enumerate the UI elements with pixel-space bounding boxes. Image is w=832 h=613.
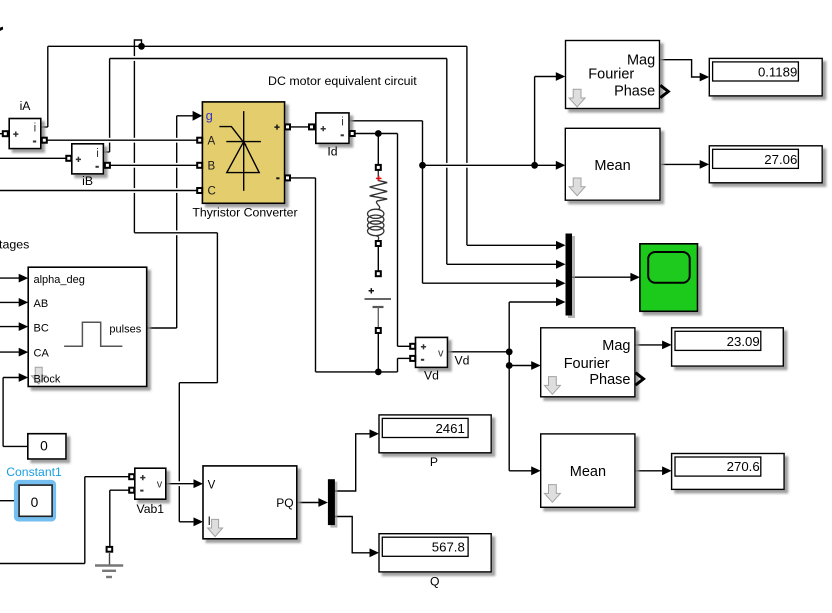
svg-text:27.06: 27.06 xyxy=(764,152,797,167)
svg-text:CA: CA xyxy=(34,348,50,360)
svg-text:Constant1: Constant1 xyxy=(6,465,62,479)
dc source battery xyxy=(369,288,374,293)
arrow into display 23.09 xyxy=(662,341,672,350)
current measurement iA xyxy=(9,119,41,149)
svg-text:Mag: Mag xyxy=(602,338,630,354)
resistor R xyxy=(370,170,388,201)
wire Block input from constant xyxy=(3,445,28,447)
svg-text:23.09: 23.09 xyxy=(727,334,760,349)
svg-text:Mean: Mean xyxy=(570,464,606,480)
wire Vd- in xyxy=(398,357,411,359)
wire Vd+ in xyxy=(398,345,411,347)
svg-text:i: i xyxy=(96,148,99,160)
node iA branch xyxy=(138,43,145,50)
pulse icon xyxy=(64,322,122,346)
svg-text:Phase: Phase xyxy=(589,372,630,388)
svg-text:pulses: pulses xyxy=(109,324,141,336)
wire thyristor- out xyxy=(290,177,315,179)
port square thyristor + xyxy=(285,124,290,129)
wire Id- out xyxy=(355,133,398,135)
display Q xyxy=(379,534,491,572)
mask arrow icon xyxy=(208,519,223,536)
svg-text:Fourier: Fourier xyxy=(564,356,610,372)
svg-text:PQ: PQ xyxy=(276,496,293,510)
wire Constant1 output left xyxy=(0,500,14,502)
wire Fourier2 Mag to display xyxy=(635,344,663,346)
wire iB i-output vertical up xyxy=(109,59,111,153)
svg-text:v: v xyxy=(438,348,444,360)
mux scope xyxy=(566,234,576,319)
wire iB i horizontal xyxy=(110,58,447,60)
wire demux to Q display xyxy=(335,517,370,553)
wire Id to junction and mux vertical xyxy=(422,121,424,283)
voltage measurement Vd xyxy=(416,337,448,367)
demux PQ xyxy=(328,479,338,527)
wire Vab1 - in xyxy=(110,489,129,491)
port square RLC mid2 xyxy=(376,271,381,276)
port square iB minus out xyxy=(105,163,110,168)
wire Block constant vertical xyxy=(2,378,4,447)
voltage measurement Vab1 xyxy=(135,468,166,499)
svg-text:iA: iA xyxy=(20,99,32,113)
svg-text:Vd: Vd xyxy=(424,369,439,383)
svg-text:Vab1: Vab1 xyxy=(137,502,165,516)
Mean block 2 xyxy=(541,434,635,507)
arrow into pulse gen CA xyxy=(19,348,29,357)
wire thyristor minus down vertical xyxy=(315,178,317,372)
port square RLC bottom xyxy=(376,328,381,333)
arrow into pulse gen alpha_deg xyxy=(19,274,29,283)
arrow into mux in3 xyxy=(556,279,566,288)
arrow into mux in1 xyxy=(556,241,566,250)
svg-text:C: C xyxy=(208,186,216,198)
wire Fourier1 feed vertical xyxy=(534,77,536,166)
wire mux input 1 xyxy=(467,244,557,246)
svg-text:0.1189: 0.1189 xyxy=(758,64,797,79)
svg-text:i: i xyxy=(341,117,344,129)
svg-text:g: g xyxy=(206,108,213,123)
corner mark xyxy=(0,27,3,31)
PQ power block xyxy=(203,466,297,539)
port square thyristor C xyxy=(197,188,202,193)
port square thyristor A xyxy=(197,138,202,143)
constant1 selected xyxy=(16,482,53,519)
current measurement Id xyxy=(316,113,349,143)
port square iA input xyxy=(3,131,8,136)
svg-text:0: 0 xyxy=(31,495,39,510)
mask arrow icon xyxy=(544,377,560,395)
svg-text:BC: BC xyxy=(34,323,49,335)
wire Vd out to node xyxy=(448,351,510,353)
port square ground xyxy=(107,547,113,552)
svg-text:P: P xyxy=(430,455,438,469)
arrow into Fourier1 xyxy=(556,72,566,81)
phase chevron out xyxy=(660,85,668,97)
arrow into scope xyxy=(630,273,640,282)
node bottom battery junction xyxy=(375,369,382,376)
node Fourier1 branch xyxy=(531,162,538,169)
wire g gate vertical (pulses to g) xyxy=(176,116,178,328)
wire RLC top connection xyxy=(377,134,379,165)
wire iA to mux vertical xyxy=(466,46,468,245)
node Id- branch xyxy=(375,130,382,137)
wire Id- down to Vd+ vertical xyxy=(397,134,399,347)
wire iA input stub xyxy=(0,133,9,135)
arrow into Mean1 xyxy=(556,161,566,170)
wire thyristor+ to Id xyxy=(290,126,309,128)
svg-text:Fourier: Fourier xyxy=(588,67,634,83)
display 270.6 xyxy=(672,454,785,490)
wire iB i elbow xyxy=(103,151,110,153)
wire iB- to thyristor B xyxy=(110,164,197,166)
wire junction row to Mean1 xyxy=(423,164,557,166)
svg-text:V: V xyxy=(208,479,216,491)
arrow into display Q xyxy=(370,548,380,557)
wire Vd node vertical (mux4 / Fourier2 / Mean2) xyxy=(508,302,510,471)
wire iA branch mid verticals xyxy=(216,233,218,383)
red plus polarity xyxy=(376,176,382,182)
svg-text:0: 0 xyxy=(40,439,48,454)
wire pulse generator inputs xyxy=(0,277,20,279)
arrow into display 0.1189 xyxy=(700,73,710,82)
port square Id - xyxy=(350,131,355,136)
wire Vab1 + in xyxy=(85,476,129,478)
wire Id i out xyxy=(349,120,423,122)
svg-text:Mean: Mean xyxy=(594,158,630,174)
wire Mean2 to display xyxy=(635,470,663,472)
port square iA minus out xyxy=(42,138,47,143)
wire iA i-output elbow xyxy=(41,126,48,128)
svg-text:i: i xyxy=(34,123,37,135)
ground symbol xyxy=(95,553,123,577)
thyristor symbol xyxy=(219,111,261,191)
mask arrow behind Block xyxy=(31,367,46,384)
port square Vd + xyxy=(410,344,415,349)
arrow into display 27.06 xyxy=(700,160,710,169)
wire top iA horizontal xyxy=(48,45,467,47)
svg-text:Block: Block xyxy=(34,373,61,385)
svg-text:A: A xyxy=(208,135,216,147)
arrow into demux xyxy=(318,498,328,507)
wire demux to P display xyxy=(335,434,370,491)
Mean block 1 xyxy=(565,128,660,200)
svg-text:alpha_deg: alpha_deg xyxy=(34,274,85,286)
arrow into Mean2 xyxy=(531,466,541,475)
arrow into PQ V xyxy=(194,479,204,488)
svg-text:Thyristor Converter: Thyristor Converter xyxy=(192,206,297,220)
arrow into display P xyxy=(370,429,380,438)
series RLC branch xyxy=(365,170,392,328)
mask arrow icon xyxy=(544,485,560,503)
arrow into g xyxy=(193,111,203,121)
wire Vd node up-branch handled, to Fourier2 xyxy=(508,352,510,366)
pulse generator block xyxy=(28,267,147,386)
node Vd out junction xyxy=(506,348,513,355)
wire Fourier1 Mag to display xyxy=(659,60,700,77)
svg-text:567.8: 567.8 xyxy=(432,540,465,555)
arrow into mux in2 xyxy=(556,260,566,269)
display 23.09 xyxy=(672,328,784,366)
svg-text:Q: Q xyxy=(430,575,439,589)
wire battery bottom to node xyxy=(377,333,379,372)
svg-text:B: B xyxy=(208,160,216,172)
wire iA- to thyristor A xyxy=(47,139,197,141)
svg-text:Id: Id xyxy=(327,144,337,158)
svg-text:270.6: 270.6 xyxy=(727,459,760,474)
port square Vab1 + xyxy=(129,474,134,479)
mask arrow icon xyxy=(569,89,585,107)
phase chevron out xyxy=(636,373,644,385)
wire to Mean2 xyxy=(509,470,532,472)
svg-text:2461: 2461 xyxy=(435,421,464,436)
svg-text:tages: tages xyxy=(0,238,29,252)
wire mux input 3 xyxy=(423,282,557,284)
wire iB to mux vertical xyxy=(446,59,448,265)
svg-text:Vd: Vd xyxy=(455,354,470,368)
port square Vab1 - xyxy=(129,488,134,493)
inductor L xyxy=(368,201,384,241)
arrow into mux in4 xyxy=(556,298,566,307)
svg-text:v: v xyxy=(157,479,163,491)
arrow into pulse gen BC xyxy=(19,322,29,331)
wire pulses to g riser xyxy=(147,327,177,329)
port square thyristor - xyxy=(285,175,290,180)
wire Vab1+ vertical xyxy=(84,477,86,564)
node Id signal junction xyxy=(419,162,426,169)
current measurement iB xyxy=(72,144,104,174)
Fourier block 2 xyxy=(541,328,644,397)
arrow into Fourier2 xyxy=(531,361,541,370)
svg-text:DC motor equivalent circuit: DC motor equivalent circuit xyxy=(268,74,417,88)
wire iA branch horizontals xyxy=(134,232,217,234)
display 27.06 xyxy=(709,146,822,183)
wire bottom node horizontal xyxy=(316,371,398,373)
arrow into PQ I xyxy=(194,517,204,526)
port square Id + xyxy=(309,124,314,129)
port square thyristor B xyxy=(197,163,202,168)
wire iA i-output vertical up xyxy=(47,46,49,127)
display P xyxy=(379,415,491,453)
mask arrow icon xyxy=(569,178,585,196)
svg-text:Phase: Phase xyxy=(614,84,655,100)
arrow into pulse gen Block xyxy=(19,373,29,382)
scope block xyxy=(640,244,698,311)
svg-text:I: I xyxy=(208,516,211,528)
constant 0 (flipped, feeds Block) xyxy=(28,434,66,459)
wire Vab1 out to PQ V xyxy=(166,483,194,485)
wire mux input 4 xyxy=(509,301,557,303)
wire RLC mid connection xyxy=(377,246,379,271)
wire Vd- jog down xyxy=(397,358,399,372)
wire iA signal branch (jog bump then down to PQ I) xyxy=(134,40,141,233)
wire mux input 2 xyxy=(447,263,557,265)
display 0.1189 xyxy=(709,58,822,96)
wire Mean1 to display xyxy=(660,163,700,165)
arrow into pulse gen AB xyxy=(19,298,29,307)
Fourier block 1 xyxy=(566,41,669,109)
wire phase C horizontal xyxy=(0,190,197,192)
svg-text:AB: AB xyxy=(34,298,49,310)
port square Vd - xyxy=(410,356,415,361)
scope screen xyxy=(648,252,690,283)
node Fourier2 branch xyxy=(506,362,513,369)
wire mux to scope xyxy=(572,276,631,278)
arrow into display 270.6 xyxy=(662,466,672,475)
port square RLC top xyxy=(376,165,381,170)
wire PQ to demux xyxy=(297,502,319,504)
wire to Fourier1 xyxy=(535,76,557,78)
port square iB input xyxy=(66,156,71,161)
port square RLC mid1 xyxy=(376,241,381,246)
svg-text:iB: iB xyxy=(82,174,93,188)
thyristor converter block xyxy=(202,102,284,203)
wire Vab1- to ground vertical xyxy=(109,490,111,546)
wire iB input xyxy=(0,157,66,159)
